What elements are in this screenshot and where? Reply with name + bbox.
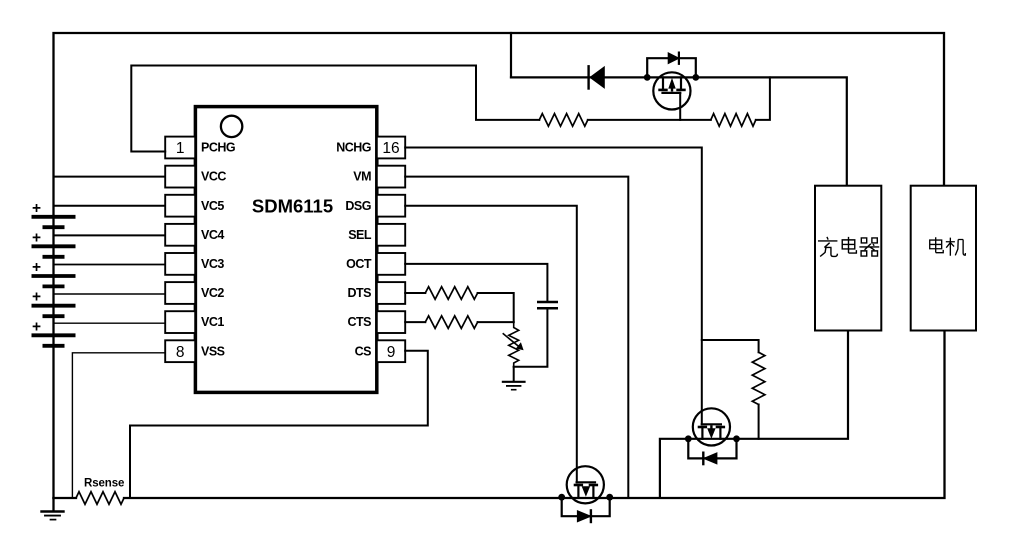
ground: battery negative	[42, 498, 64, 520]
svg-text:OCT: OCT	[346, 257, 372, 271]
resistor R4	[425, 287, 477, 300]
wire: CTS stub	[405, 321, 425, 323]
ground: thermistor network	[503, 367, 525, 390]
svg-text:SEL: SEL	[348, 228, 372, 242]
svg-text:VM: VM	[353, 170, 371, 184]
svg-text:SDM6115: SDM6115	[252, 195, 333, 216]
wire: R1 to Q1 gate and R2	[588, 119, 711, 121]
pin box CTS	[377, 311, 405, 333]
resistor R2	[711, 114, 756, 127]
svg-text:16: 16	[382, 140, 399, 157]
wire: VC4 tap between B1 and B2	[54, 234, 166, 236]
wire: battery series string	[52, 216, 54, 498]
wire: charge rail to charger top	[511, 77, 847, 185]
wire: VCC tap to battery top	[54, 176, 166, 178]
pin box VC2	[165, 282, 195, 304]
label: charger chinese characters	[818, 237, 879, 257]
svg-text:NCHG: NCHG	[336, 141, 371, 155]
svg-text:DTS: DTS	[348, 286, 372, 300]
svg-text:DSG: DSG	[345, 199, 371, 213]
wire: VC3 tap between B2 and B3	[54, 264, 166, 266]
pin box 16 NCHG	[377, 137, 405, 159]
pin box 1 PCHG	[165, 137, 195, 159]
wire: R3 to Q2 source rail	[758, 405, 760, 439]
pin box 9 CS	[377, 340, 405, 362]
svg-text:VC2: VC2	[201, 286, 224, 300]
svg-text:PCHG: PCHG	[201, 141, 235, 155]
wire: OCT to capacitor C1	[405, 264, 547, 302]
wire: Q2 source rail to bottom rail and charger bottom	[660, 331, 848, 498]
pin box DTS	[377, 282, 405, 304]
resistor R5	[425, 316, 477, 329]
junction: Q3 right node	[606, 494, 613, 501]
junction: Q2 left node	[685, 435, 692, 442]
svg-text:VSS: VSS	[201, 344, 225, 358]
svg-text:+: +	[32, 229, 41, 246]
svg-text:Rsense: Rsense	[84, 478, 124, 490]
wire: battery negative to Rsense	[54, 497, 77, 499]
battery cell B4	[32, 306, 76, 317]
junction: Q2 right node	[733, 435, 740, 442]
wire: bottom rail from Rsense to motor bottom	[124, 331, 945, 499]
resistor R3	[752, 352, 765, 404]
wire: DSG to Q3 gate	[405, 206, 577, 483]
resistor R1	[539, 114, 588, 127]
wire: VC5 tap to battery top	[54, 205, 166, 207]
charger box	[815, 186, 881, 331]
wire: R5 to thermistor top	[478, 321, 514, 323]
resistor Rsense	[76, 492, 124, 505]
label: motor chinese characters	[930, 237, 966, 256]
wire: charge rail branch from top rail	[510, 33, 512, 77]
pin box OCT	[377, 253, 405, 275]
battery cell B1	[32, 217, 76, 227]
svg-text:+: +	[32, 289, 41, 306]
op-amp U1 SDM6115 IC body	[195, 107, 376, 393]
transistor Q2 charge NMOS	[693, 408, 730, 445]
diode D3 body diode of Q2	[688, 439, 736, 464]
wire: VC2 tap between B3 and B4	[54, 293, 166, 295]
transistor Q3 discharge NMOS	[567, 466, 604, 503]
wire: VSS to battery negative node	[72, 353, 165, 498]
pin box DSG	[377, 195, 405, 217]
svg-text:CS: CS	[355, 344, 372, 358]
svg-text:+: +	[32, 200, 41, 217]
wire: NCHG branch to R3	[702, 340, 759, 352]
pin box VC3	[165, 253, 195, 275]
wire: VM sense to bottom rail	[405, 177, 628, 498]
junction: Q1 right node	[692, 74, 699, 81]
pin box VM	[377, 166, 405, 188]
wire: VC1 tap between B4 and B5	[54, 322, 166, 324]
diode D1	[589, 66, 605, 88]
battery cell B5	[32, 335, 76, 346]
wire: top rail from battery positive to motor top	[54, 33, 945, 216]
wire: DTS stub	[405, 292, 425, 294]
wire: R2 to charge rail	[756, 77, 770, 120]
diode D4 body diode of Q3	[562, 497, 610, 522]
pin box VC5	[165, 195, 195, 217]
junction: Q1 left node	[644, 74, 651, 81]
svg-text:+: +	[32, 259, 41, 276]
diode D2 bypass of Q1	[647, 53, 696, 78]
svg-text:CTS: CTS	[348, 315, 372, 329]
svg-text:8: 8	[176, 344, 185, 361]
pin box SEL	[377, 224, 405, 246]
svg-text:VCC: VCC	[201, 170, 226, 184]
pin box VC4	[165, 224, 195, 246]
transistor Q1 charge PMOS	[653, 72, 690, 120]
battery cell B3	[32, 276, 76, 286]
svg-text:+: +	[32, 318, 41, 335]
battery cell B2	[32, 246, 76, 256]
pin 1 indicator circle	[221, 116, 242, 137]
wire: NCHG to Q2 gate	[405, 148, 702, 425]
svg-text:9: 9	[387, 344, 396, 361]
capacitor C1	[537, 302, 558, 308]
pin box VC1	[165, 311, 195, 333]
pin box 8 VSS	[165, 340, 195, 362]
wire: PCHG gate drive route	[131, 66, 539, 152]
svg-text:VC3: VC3	[201, 257, 224, 271]
junction: Q3 left node	[558, 494, 565, 501]
wire: R4 to thermistor top	[478, 293, 514, 322]
svg-text:VC4: VC4	[201, 228, 224, 242]
wire: CS to Rsense node	[130, 351, 428, 498]
svg-text:VC5: VC5	[201, 199, 224, 213]
thermistor RV1 adjustable	[503, 322, 523, 367]
svg-text:1: 1	[176, 140, 185, 157]
svg-text:VC1: VC1	[201, 315, 224, 329]
wire: C1 bottom to thermistor ground node	[514, 308, 548, 367]
pin box VCC	[165, 166, 195, 188]
motor box	[911, 186, 976, 331]
